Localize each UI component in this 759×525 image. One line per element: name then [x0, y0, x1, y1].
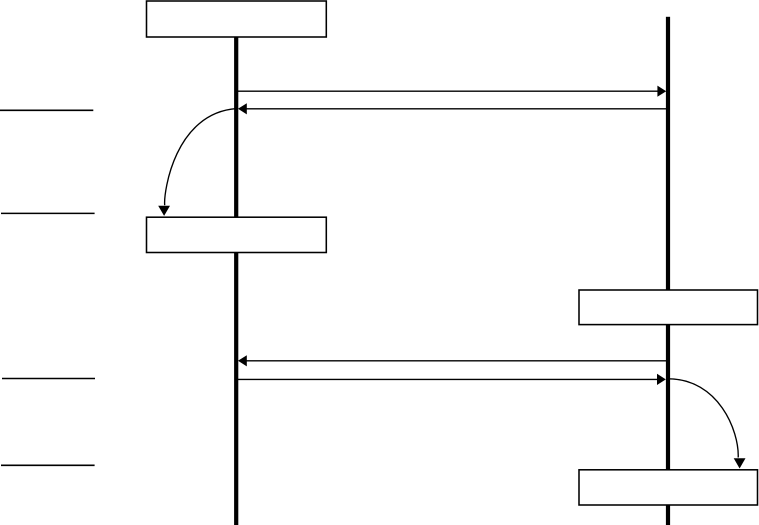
message arrow M4 (left to right) — [238, 374, 666, 385]
object box B4 (right, bottom) — [579, 470, 758, 505]
curved message arc A2 (right lifeline down to box B4) — [668, 379, 746, 469]
message arrow M1 (left to right) — [238, 86, 666, 97]
object box B3 (right, middle) — [579, 290, 758, 325]
lifeline L2 (right object lifeline) — [666, 17, 670, 525]
curved message arc A1 (left lifeline down to box B2) — [158, 109, 236, 216]
lifeline L1 (left object lifeline) — [234, 36, 238, 525]
margin line B (left edge, second) — [1, 212, 95, 214]
margin line A (left edge, top) — [0, 109, 93, 111]
message arrow M3 (right to left) — [238, 355, 668, 366]
object box B2 (left, middle) — [147, 217, 327, 252]
object box B1 (top left) — [147, 1, 327, 37]
message arrow M2 (right to left) — [238, 103, 668, 114]
margin line D (left edge, bottom) — [1, 464, 95, 466]
margin line C (left edge, third) — [2, 378, 95, 380]
